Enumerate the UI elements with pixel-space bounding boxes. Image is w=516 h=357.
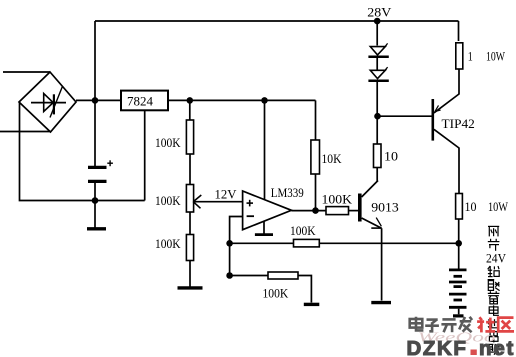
label vertical text char 酸: [488, 280, 500, 291]
label vertical text char 联: [488, 344, 500, 355]
watermark char 开 gray: [441, 319, 456, 332]
label vertical text char 蓄: [488, 291, 500, 304]
node junction inverting/R10: [226, 272, 233, 279]
transistor Q2 9013: [358, 181, 399, 229]
wire inverting input: [230, 217, 243, 276]
resistor R8 10 10W: [456, 194, 509, 220]
watermark char 社 red: [477, 317, 495, 332]
wire pot to R3: [189, 212, 191, 235]
wire D1 to D2: [376, 58, 378, 71]
resistor R9 100K feedback: [290, 223, 319, 247]
svg-text:10: 10: [384, 149, 398, 164]
resistor R4 10K: [311, 140, 342, 174]
wire 7824 ground pin: [144, 110, 146, 201]
wire op-amp V+ supply: [264, 100, 266, 199]
label vertical text char 池: [488, 319, 500, 328]
wire R8 to battery: [458, 219, 460, 269]
wire wiper 12V to op-amp: [194, 201, 243, 203]
wire divider top lead: [189, 100, 191, 120]
node output junction: [312, 207, 319, 214]
watermark char 电 gray: [410, 317, 424, 331]
svg-text:100K: 100K: [155, 193, 181, 208]
wire bridge output to 7824: [76, 99, 121, 101]
node junction divider top: [187, 97, 194, 104]
svg-text:100K: 100K: [155, 135, 181, 150]
svg-text:100K: 100K: [155, 236, 181, 251]
wire R6 to 9013 collector: [376, 168, 378, 182]
resistor R10 100K: [263, 272, 299, 301]
capacitor C1: [88, 160, 113, 181]
svg-text:DZKF: DZKF: [407, 337, 468, 357]
wire capacitor bottom lead: [94, 183, 96, 201]
svg-text:10W: 10W: [488, 199, 509, 214]
resistor R5 100K base: [322, 191, 353, 214]
battery BT1: [449, 270, 467, 316]
ground under 9013 emitter: [371, 301, 391, 304]
label vertical text char 两: [488, 226, 499, 236]
node junction feedback/battery: [455, 240, 462, 247]
bridge rectifier BR1: [19, 72, 76, 132]
wire 7824 output bus: [168, 99, 316, 101]
svg-text:TIP42: TIP42: [442, 116, 475, 131]
regulator U2 7824: [121, 91, 168, 111]
wire main positive vertical: [94, 21, 96, 166]
wire TIP42 base: [377, 115, 433, 117]
node junction inverting/feedback: [226, 240, 233, 247]
watermark DZKF.net: [407, 337, 516, 357]
label vertical text char 铅: [488, 266, 500, 277]
wire op-amp output: [291, 210, 326, 212]
svg-text:9013: 9013: [371, 200, 399, 215]
wire R1 to pot: [189, 154, 191, 185]
node junction bridge/cap: [92, 97, 99, 104]
svg-text:100K: 100K: [290, 223, 316, 238]
wire left ground rail: [20, 103, 145, 201]
svg-text:1: 1: [468, 49, 473, 64]
wire 9013 emitter lead: [381, 228, 383, 300]
node junction opamp supply: [261, 97, 268, 104]
svg-text:12V: 12V: [215, 187, 238, 202]
wire top bus to D1: [376, 21, 378, 46]
op-amp U1 LM339: [243, 185, 304, 230]
wire R7 to TIP42 emitter: [458, 69, 460, 95]
wire D2 to base node: [376, 82, 378, 145]
label vertical text char 串: [489, 330, 498, 342]
label vertical text char 节: [488, 239, 500, 251]
wire AC input top: [3, 71, 50, 73]
wire TIP42 collector to R8: [458, 148, 460, 194]
label vertical text char 电: [489, 305, 499, 315]
wire feedback bus left: [230, 242, 294, 244]
svg-text:LM339: LM339: [271, 185, 304, 200]
wire 10K top lead: [315, 100, 317, 140]
resistor R1 100K: [155, 120, 194, 154]
resistor R6 10: [374, 144, 399, 168]
ground under R10: [304, 303, 320, 306]
svg-text:10: 10: [465, 199, 477, 214]
wire top bus right corner: [458, 21, 460, 41]
wire top bus 28V: [95, 20, 459, 22]
svg-text:10K: 10K: [322, 151, 343, 166]
transistor Q1 TIP42: [433, 94, 475, 148]
node junction top bus diode branch: [374, 18, 381, 25]
svg-text:10W: 10W: [486, 49, 506, 64]
diode D2: [368, 67, 388, 81]
watermark char 发 gray: [459, 317, 472, 332]
node junction diode/base: [374, 113, 381, 120]
svg-text:28V: 28V: [367, 5, 392, 20]
svg-text:24V: 24V: [486, 252, 506, 266]
wire 10K bottom lead: [315, 174, 317, 211]
potentiometer RP1 100K: [155, 185, 201, 213]
watermark char 子 gray: [425, 320, 439, 332]
wire R10 to ground: [298, 276, 311, 303]
wire AC input bottom: [0, 131, 51, 133]
diode D1: [368, 43, 388, 56]
svg-text:100K: 100K: [322, 191, 353, 206]
resistor R7 1 10W: [456, 43, 506, 69]
ground under divider: [178, 261, 203, 288]
svg-text:7824: 7824: [127, 93, 154, 108]
svg-text:100K: 100K: [263, 286, 289, 301]
wire feedback bus right: [319, 242, 458, 244]
wire R10 left lead: [230, 275, 268, 277]
ground op-amp: [255, 221, 273, 235]
wire R5 to 9013 base: [349, 210, 359, 212]
watermark char 区 red: [498, 318, 514, 332]
ground under capacitor: [87, 201, 106, 229]
resistor R3 100K: [155, 235, 194, 261]
svg-text:net: net: [479, 337, 515, 357]
node junction ground bus: [92, 197, 99, 204]
